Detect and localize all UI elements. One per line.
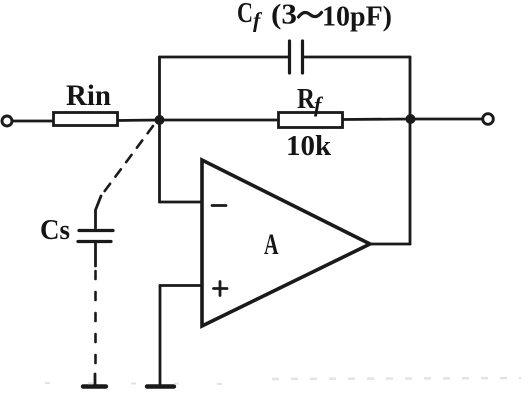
wire ground stub [94, 374, 97, 385]
wire Cs bottom [94, 242, 97, 267]
svg-text:10k: 10k [286, 130, 332, 162]
node A junction [155, 115, 165, 125]
wire output vertical [409, 57, 412, 244]
svg-text:(3: (3 [271, 0, 297, 31]
ground G1 [83, 384, 106, 388]
wire input to Rin [12, 120, 54, 123]
wire Rin to node A [117, 119, 160, 122]
svg-text:10pF): 10pF) [322, 2, 392, 33]
wire inverting input horizontal [160, 201, 203, 204]
svg-text:f: f [253, 8, 263, 33]
wire node A to Rf [160, 119, 279, 122]
wire dashed node A to Cs [101, 126, 153, 196]
plus sign [214, 282, 228, 296]
node B junction [406, 114, 416, 124]
op-amp U1 [202, 160, 370, 326]
capacitor Cs [78, 231, 113, 242]
resistor Rf [279, 113, 343, 128]
minus sign [212, 204, 226, 207]
wire feedback left vertical [158, 57, 161, 120]
wire Rf to node B [342, 118, 411, 121]
output terminal [483, 114, 494, 125]
wire feedback top right [303, 56, 410, 59]
svg-text:Rin: Rin [66, 79, 111, 112]
wire feedback top left [160, 56, 290, 59]
input terminal [2, 116, 12, 126]
wire Cs top [96, 196, 102, 228]
wire non-inverting input vertical [159, 286, 162, 386]
wire dashed Cs to ground [94, 271, 97, 372]
wire non-inverting input horizontal [160, 284, 202, 287]
wire node B to output [411, 118, 482, 121]
ground G2 [147, 384, 174, 388]
capacitor Cf [290, 41, 303, 73]
label Rf [297, 83, 324, 117]
resistor Rin [54, 113, 118, 126]
svg-text:Cs: Cs [40, 214, 70, 246]
svg-text:A: A [264, 228, 279, 261]
label tilde [299, 13, 322, 18]
wire inverting input vertical [158, 120, 161, 202]
label Cf (3~10pF) [237, 0, 392, 33]
svg-text:C: C [237, 0, 253, 29]
wire op-amp output [370, 243, 410, 246]
